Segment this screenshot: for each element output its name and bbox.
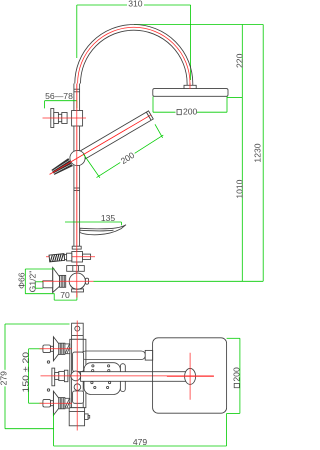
gooseneck arc [75,25,193,90]
hand shower wand [75,111,153,162]
shower head connector nut [184,85,196,89]
svg-text:Φ66: Φ66 [17,272,27,289]
head connector centerline overlay [189,83,191,89]
wall union flange [51,109,67,128]
dimension 220 [235,25,245,98]
upper inner bracket [73,352,84,371]
hand shower plate top view [84,363,125,395]
valve body circle [69,273,85,289]
wall union tee on riser [72,111,83,127]
dimension 150 +-20 [20,349,43,403]
dimension 1010 [235,98,245,282]
soap dish [80,225,126,235]
dimension 56-78 [45,91,77,108]
dimension 70 [54,290,77,300]
hose outlet tee [72,252,83,263]
valve thread ribs [60,275,66,287]
stub centerline [46,256,95,258]
svg-text:1010: 1010 [235,179,245,198]
riser pipe [74,84,80,298]
small circle below ball [74,384,81,391]
svg-text:56—78: 56—78 [45,91,73,101]
top handle top view [40,337,73,361]
body bottom block [69,408,90,426]
braided hose [49,254,65,262]
svg-text:135: 135 [101,213,116,223]
soap dish bar top view [82,350,153,360]
valve escutcheon bell [53,268,60,293]
svg-text:200: 200 [183,107,198,117]
riser centerline overlay [76,84,78,298]
dimension 1230 [252,25,263,282]
dimension phi66 [17,269,55,294]
dimension 310 line [77,0,191,80]
valve top nut [67,266,85,272]
lower inner bracket [73,391,84,403]
hand shower holder ball [70,150,85,165]
valve bottom cap [72,289,84,292]
body centerline vertical [76,321,78,431]
svg-text:150 ± 20: 150 ± 20 [20,352,30,393]
head bottom extension [227,97,242,99]
arm centerline horizontal [41,375,214,377]
head square top view [153,338,227,413]
riser joint collar lower [72,246,81,249]
valve level extension line [94,280,264,282]
valve right knob [85,278,88,284]
dimension square200 top view1 [153,97,227,117]
svg-text:1230: 1230 [252,143,262,162]
svg-text:279: 279 [0,371,8,386]
svg-text:220: 220 [235,53,245,68]
top extension line [134,24,263,26]
middle wall union top view [47,361,68,391]
dimension square200 bottom view [227,338,242,413]
riser joint collar middle [74,188,80,191]
arm ball joint at body [71,371,81,381]
riser joint collar upper [74,89,80,92]
svg-text:200: 200 [231,367,241,382]
dimension 479 [54,413,227,447]
bottom handle top view [40,391,73,415]
dimension G1/2 [27,271,43,293]
right stub [83,254,91,259]
wall union centerline [43,117,87,119]
hand shower head wedge [47,111,153,179]
svg-text:479: 479 [133,437,148,447]
dimension 279 [0,324,69,429]
dimension 200 diagonal [83,124,163,178]
svg-text:310: 310 [128,0,143,8]
shower head side view [153,89,228,97]
dimension 135 [65,213,121,225]
svg-text:70: 70 [60,290,70,300]
body top block [72,323,84,339]
G1/2 port [43,281,53,288]
svg-text:G1/2": G1/2" [27,271,37,293]
hose nut [64,253,71,261]
valve centerline [42,280,94,282]
arm top view [81,368,196,384]
body main bar [70,339,86,407]
